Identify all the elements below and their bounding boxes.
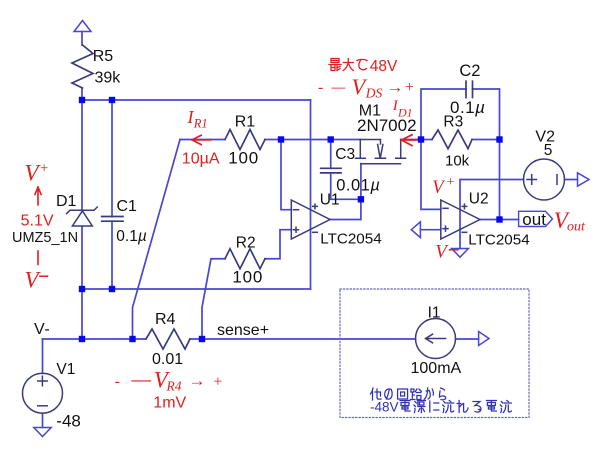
svg-text:+: + bbox=[40, 160, 48, 176]
svg-text:0.1µ: 0.1µ bbox=[116, 228, 147, 245]
svg-text:→: → bbox=[387, 78, 404, 97]
voltage source V2 bbox=[524, 159, 565, 200]
svg-text:R4: R4 bbox=[155, 311, 176, 328]
svg-text:+: + bbox=[405, 79, 414, 96]
junction M1 source / R3 left bbox=[418, 136, 424, 142]
off-page connector right of V2 bbox=[578, 173, 590, 186]
annotation max 48V (kanji) bbox=[329, 59, 367, 71]
resistor R5 bbox=[72, 45, 93, 88]
wire C2 left branch bbox=[421, 89, 466, 140]
svg-text:DS: DS bbox=[365, 86, 383, 101]
svg-text:100: 100 bbox=[228, 149, 259, 168]
wire sense+ row to I1 bbox=[190, 338, 416, 340]
capacitor C3 bbox=[321, 168, 341, 173]
wire R5 bottom lead to D1 cathode bbox=[81, 88, 83, 210]
wire M1 source to I_D1 node bbox=[401, 139, 421, 141]
junction V- sense row bbox=[79, 336, 85, 342]
junction R3 right / C2 bbox=[496, 136, 502, 142]
svg-text:39k: 39k bbox=[95, 70, 122, 87]
svg-text:5.1V: 5.1V bbox=[21, 212, 54, 229]
zener diode D1 bbox=[67, 207, 98, 226]
svg-text:C3: C3 bbox=[335, 146, 355, 163]
junction gate node bbox=[358, 196, 364, 202]
svg-text:LTC2054: LTC2054 bbox=[468, 231, 529, 248]
svg-text:R4: R4 bbox=[166, 379, 182, 394]
svg-text:V: V bbox=[432, 178, 446, 198]
svg-text:-48: -48 bbox=[56, 411, 81, 430]
capacitor C1 bbox=[102, 217, 123, 222]
svg-text:V: V bbox=[25, 268, 42, 293]
svg-text:10k: 10k bbox=[445, 152, 470, 169]
wire R3 left lead bbox=[421, 139, 432, 141]
svg-text:U1: U1 bbox=[320, 192, 340, 209]
wire R5 top stem bbox=[81, 32, 83, 46]
svg-text:→: → bbox=[189, 371, 206, 390]
svg-text:R5: R5 bbox=[93, 48, 114, 65]
wire node to U1 minus input bbox=[281, 140, 291, 210]
wire V- rail to sense row bbox=[81, 289, 83, 339]
wire C1 bottom lead bbox=[111, 221, 113, 289]
svg-text:+: + bbox=[214, 374, 223, 391]
svg-text:D1: D1 bbox=[397, 106, 413, 120]
nmos M1 bbox=[356, 140, 406, 164]
wire M1 gate drop bbox=[360, 164, 362, 200]
svg-text:R1: R1 bbox=[235, 113, 256, 130]
svg-text:—: — bbox=[331, 79, 346, 96]
wire U1 plus input to R2 bbox=[265, 230, 291, 259]
svg-text:LTC2054: LTC2054 bbox=[320, 230, 381, 247]
junction sense- node bbox=[129, 336, 135, 342]
junction D1 bottom rail bbox=[79, 286, 85, 292]
resistor R2 bbox=[225, 249, 265, 269]
wire V2 minus to connector bbox=[565, 179, 578, 181]
off-page connector right of I1 bbox=[479, 332, 489, 346]
wire U1 output to gate node bbox=[330, 199, 361, 219]
note line1 (Japanese) bbox=[371, 388, 446, 400]
svg-text:0.01µ: 0.01µ bbox=[336, 177, 380, 195]
off-page connector top above R5 bbox=[74, 21, 91, 32]
wire V2 plus to U2 supply vertical bbox=[460, 180, 524, 249]
svg-text:R1: R1 bbox=[193, 117, 208, 131]
wire sense row left bbox=[43, 338, 147, 340]
svg-text:100: 100 bbox=[232, 268, 263, 287]
annotation arrow I_D1 bbox=[401, 135, 416, 146]
current source I1 bbox=[416, 319, 456, 359]
svg-text:UMZ5_1N: UMZ5_1N bbox=[12, 230, 78, 246]
wire V1 bottom to ground bbox=[42, 413, 44, 427]
wire D1 anode to V- rail bbox=[81, 226, 83, 289]
svg-text:-: - bbox=[115, 373, 120, 390]
svg-text:sense+: sense+ bbox=[217, 322, 269, 339]
out flag bbox=[519, 211, 553, 226]
resistor R1 bbox=[225, 130, 265, 150]
voltage source V1 bbox=[23, 373, 63, 413]
note line2 (Japanese) bbox=[370, 400, 511, 415]
resistor R3 bbox=[432, 130, 472, 149]
svg-text:10µA: 10µA bbox=[182, 151, 220, 168]
wire R3 right lead bbox=[472, 139, 500, 141]
annotation arrow I_R1 bbox=[192, 135, 210, 144]
wire I1 right to connector bbox=[456, 338, 479, 340]
svg-text:+: + bbox=[447, 175, 455, 190]
svg-text:V-: V- bbox=[34, 321, 50, 338]
resistor R4 bbox=[146, 329, 190, 349]
svg-text:V1: V1 bbox=[56, 361, 75, 378]
annotation dash bbox=[37, 251, 39, 265]
wire U2 output to out flag bbox=[480, 219, 519, 221]
wire U1 supply vertical bbox=[310, 100, 312, 289]
svg-text:D1: D1 bbox=[56, 193, 77, 210]
wire U2 plus input bbox=[420, 229, 440, 231]
svg-text:1mV: 1mV bbox=[153, 395, 186, 412]
dotted box around I1 bbox=[340, 289, 529, 418]
wire C1 top lead bbox=[111, 100, 113, 217]
op-amp U1 bbox=[291, 200, 330, 239]
svg-text:C2: C2 bbox=[459, 62, 480, 80]
wire R1 right lead to node bbox=[265, 139, 360, 141]
ground under U2 supply bbox=[452, 249, 469, 258]
svg-text:R2: R2 bbox=[236, 235, 256, 252]
svg-text:R3: R3 bbox=[443, 113, 463, 130]
junction R5/D1 top bbox=[79, 97, 85, 103]
junction C1 top bbox=[109, 97, 115, 103]
svg-text:-48V: -48V bbox=[370, 400, 399, 415]
ground under V1 bbox=[34, 428, 51, 437]
annotation arrow up 5.1V bbox=[35, 187, 41, 205]
wire V+ rail top horizontal bbox=[82, 99, 311, 101]
svg-text:I1: I1 bbox=[428, 304, 441, 321]
svg-text:C1: C1 bbox=[117, 198, 138, 215]
svg-text:U2: U2 bbox=[469, 191, 489, 208]
off-page connector at U2 plus input bbox=[411, 222, 420, 238]
svg-text:0.01: 0.01 bbox=[152, 351, 183, 368]
svg-text:48V: 48V bbox=[370, 58, 398, 75]
wire C3 top lead bbox=[330, 140, 332, 169]
capacitor C2 bbox=[466, 81, 473, 97]
op-amp U2 bbox=[441, 200, 480, 239]
svg-text:5: 5 bbox=[544, 142, 553, 159]
svg-text:out: out bbox=[522, 210, 546, 229]
svg-text:out: out bbox=[567, 219, 586, 234]
junction sense+ node bbox=[199, 336, 205, 342]
wire R1 left lead bbox=[180, 139, 225, 141]
wire V- node to V1 bbox=[42, 339, 44, 373]
junction C1 bottom rail bbox=[109, 286, 115, 292]
junction R1 right node bbox=[278, 136, 284, 142]
wire C2 node down to U2 minus input bbox=[421, 140, 441, 210]
junction C3 top node bbox=[328, 136, 334, 142]
wire C3 bottom lead to gate node bbox=[331, 173, 361, 199]
wire diagonal R1 left to sense- node bbox=[133, 140, 181, 340]
wire V- rail horizontal bbox=[82, 288, 311, 290]
wire C2 right branch down to U2 output node bbox=[473, 89, 500, 220]
wire R2 left lead diagonal to sense+ bbox=[202, 259, 225, 339]
svg-text:V: V bbox=[25, 160, 42, 185]
svg-text:-: - bbox=[318, 79, 323, 96]
svg-text:V: V bbox=[435, 241, 449, 262]
junction U2 output bbox=[496, 216, 502, 222]
svg-text:—: — bbox=[131, 366, 152, 391]
svg-text:100mA: 100mA bbox=[411, 360, 462, 377]
